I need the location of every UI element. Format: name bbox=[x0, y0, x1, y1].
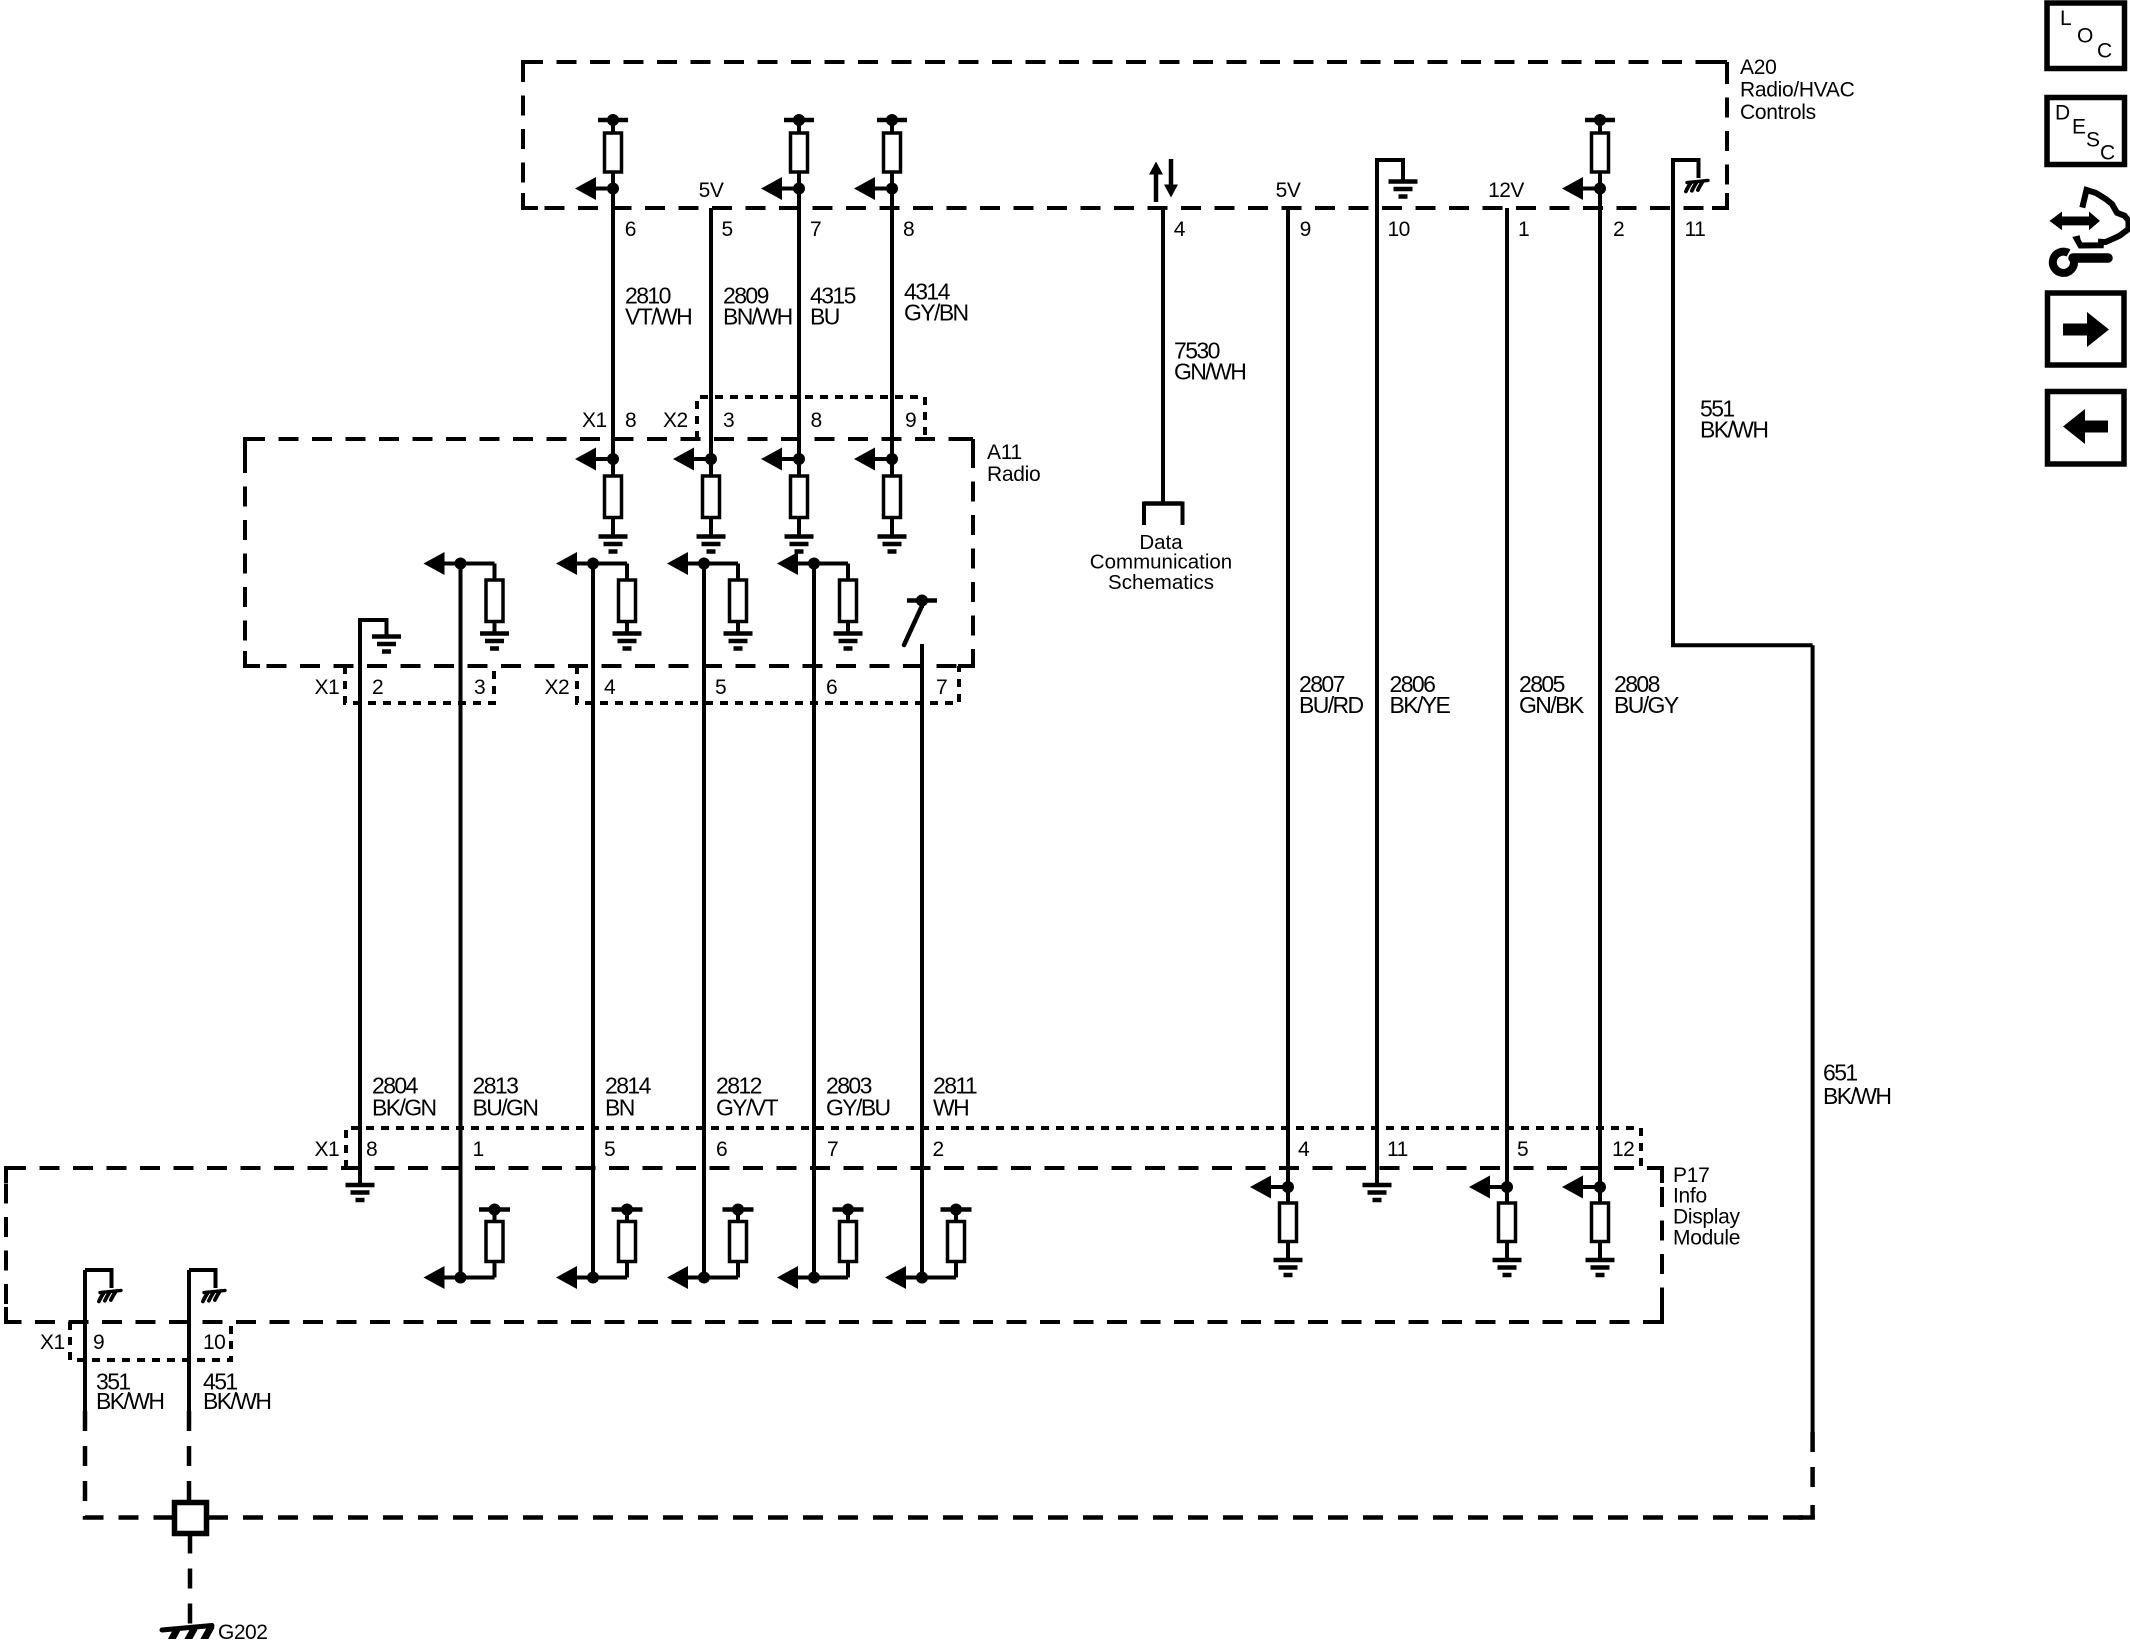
component box A20 Radio/HVAC Controls (dashed outline) bbox=[523, 62, 1727, 208]
svg-text:8: 8 bbox=[903, 218, 914, 241]
wire label 2810 VT/WH bbox=[625, 282, 691, 329]
svg-text:5: 5 bbox=[715, 676, 726, 699]
pin 12 (P17 top connector) bbox=[1612, 1138, 1634, 1161]
ground (P17 left, chassis symbol with elbow, pin 10) bbox=[189, 1270, 225, 1301]
svg-text:A11: A11 bbox=[987, 441, 1022, 464]
wire label 2805 GN/BK bbox=[1519, 671, 1585, 718]
svg-text:Display: Display bbox=[1673, 1206, 1741, 1229]
svg-text:7: 7 bbox=[810, 218, 821, 241]
svg-text:BU: BU bbox=[810, 303, 839, 329]
pin 2 (A11 bottom) bbox=[372, 676, 383, 699]
svg-text:E: E bbox=[2072, 116, 2086, 139]
wire 351 BK/WH (dashed segment to splice) bbox=[85, 1411, 172, 1518]
svg-text:5: 5 bbox=[604, 1138, 615, 1161]
svg-text:X1: X1 bbox=[40, 1331, 65, 1354]
label A11 Radio bbox=[987, 441, 1040, 486]
resistor to ground (A11 output, pin X2-5) bbox=[667, 552, 753, 649]
wire label 451 BK/WH bbox=[203, 1368, 270, 1414]
connector label X2 (A11 top) bbox=[663, 409, 688, 432]
component box P17 Info Display Module (dashed outline) bbox=[6, 1168, 1662, 1322]
wire label 2813 BU/GN bbox=[473, 1072, 538, 1120]
resistor to ground (A11 output, pin X2-6) bbox=[777, 552, 863, 649]
wire label 4314 GY/BN bbox=[904, 278, 968, 325]
resistor (A20 internal pull-up, pin 8) bbox=[854, 114, 907, 209]
svg-text:S: S bbox=[2086, 129, 2100, 152]
svg-text:Radio/HVAC: Radio/HVAC bbox=[1740, 79, 1855, 102]
wire 2813 BU/GN (A11:X1-3 to P17:1) bbox=[459, 564, 463, 1278]
wire 351 BK/WH (P17:9 solid segment) bbox=[83, 1270, 87, 1411]
svg-text:BK/GN: BK/GN bbox=[372, 1094, 436, 1120]
connector X2 (A11 top, dotted box) bbox=[697, 397, 925, 439]
svg-text:4: 4 bbox=[1298, 1138, 1310, 1161]
svg-text:4: 4 bbox=[1174, 218, 1186, 241]
wire label 2807 BU/RD bbox=[1299, 671, 1364, 718]
svg-text:11: 11 bbox=[1387, 1138, 1408, 1161]
wire 2810 VT/WH (A20:6 to A11:X1-8) bbox=[611, 189, 615, 460]
resistor to ground (P17 pin 5) bbox=[1469, 1176, 1522, 1276]
off-page connector to data communication bus (bracket) bbox=[1144, 502, 1183, 526]
pin 4 (A11 bottom) bbox=[604, 676, 616, 699]
label A20 Radio/HVAC Controls bbox=[1740, 56, 1855, 124]
pin 10 (A20) bbox=[1388, 218, 1410, 241]
svg-text:GN/BK: GN/BK bbox=[1519, 692, 1585, 718]
svg-text:1: 1 bbox=[1518, 218, 1529, 241]
resistor with off-page arrow (P17 pin 2) bbox=[885, 1204, 972, 1290]
svg-text:BU/GN: BU/GN bbox=[473, 1094, 538, 1120]
icon next-page (right arrow box) bbox=[2048, 293, 2125, 365]
resistor to ground (A11 output, pin X1-3) bbox=[424, 552, 510, 649]
wire (dashed segment splice to G202) bbox=[188, 1534, 193, 1627]
resistor to ground (A11 input, pin X1-8) bbox=[575, 448, 628, 552]
wire 2807 BU/RD (A20:9 to P17:4) bbox=[1286, 208, 1290, 1187]
wire label 2803 GY/BU bbox=[826, 1072, 890, 1120]
icon DESC (hyperlink box) bbox=[2047, 98, 2125, 165]
svg-text:9: 9 bbox=[1300, 218, 1311, 241]
svg-text:Radio: Radio bbox=[987, 463, 1040, 486]
ground G202 (chassis symbol) bbox=[162, 1626, 212, 1644]
pin 10 (P17 bottom) bbox=[203, 1331, 225, 1354]
svg-text:BN: BN bbox=[605, 1094, 634, 1120]
svg-text:C: C bbox=[2100, 142, 2115, 165]
pin 8 (A20) bbox=[903, 218, 914, 241]
pin 7 (P17 top connector) bbox=[827, 1138, 838, 1161]
icon previous-page (left arrow box) bbox=[2048, 392, 2125, 465]
svg-text:7: 7 bbox=[827, 1138, 838, 1161]
connector X1 (P17 top, dotted box) bbox=[346, 1128, 1641, 1168]
wire label 351 BK/WH bbox=[96, 1368, 163, 1414]
connector label X1 (P17 top) bbox=[315, 1138, 340, 1161]
wire label 551 BK/WH bbox=[1700, 395, 1767, 442]
wire label 2812 GY/VT bbox=[716, 1072, 779, 1120]
label G202 bbox=[218, 1621, 267, 1644]
svg-text:7: 7 bbox=[936, 676, 947, 699]
wire 451 BK/WH (P17:10 solid segment) bbox=[187, 1270, 191, 1411]
resistor to ground (A11 output, pin X2-4) bbox=[556, 552, 642, 649]
wire 551 BK/WH (A20:11 down and right) bbox=[1673, 208, 1813, 645]
pin 6 (A20) bbox=[625, 218, 636, 241]
wire label 2811 WH bbox=[933, 1072, 977, 1120]
wire label 651 BK/WH bbox=[1823, 1059, 1890, 1109]
svg-text:BK/YE: BK/YE bbox=[1390, 692, 1451, 718]
bidirectional serial-data arrows (A20 pin 4) bbox=[1149, 159, 1178, 202]
svg-text:BU/RD: BU/RD bbox=[1299, 692, 1364, 718]
ground (A11 pin X1-2, earth symbol with elbow) bbox=[360, 620, 401, 666]
pin 7 (A20) bbox=[810, 218, 821, 241]
svg-text:X2: X2 bbox=[663, 409, 688, 432]
wire label 2808 BU/GY bbox=[1614, 671, 1679, 718]
resistor (A20 internal pull-up, pin 6) bbox=[575, 114, 628, 209]
resistor with off-page arrow (P17 pin 7) bbox=[777, 1204, 864, 1290]
wire (dashed bus to 651 BK/WH) bbox=[208, 1515, 1813, 1520]
net label 5V (A20 pin 9) bbox=[1276, 179, 1301, 202]
resistor to ground (A11 input, pin X2-8) bbox=[761, 448, 814, 552]
wire 7530 GN/WH (A20:4 to data bus) bbox=[1161, 208, 1165, 503]
svg-text:10: 10 bbox=[1388, 218, 1410, 241]
svg-text:G202: G202 bbox=[218, 1621, 267, 1639]
pin 11 (A20) bbox=[1685, 218, 1706, 241]
wire 2812 GY/VT (A11:X2-5 to P17:6) bbox=[702, 564, 706, 1278]
pin 8 (A11 X1 top) bbox=[625, 409, 636, 432]
svg-text:GN/WH: GN/WH bbox=[1174, 358, 1245, 384]
svg-text:X1: X1 bbox=[315, 1138, 340, 1161]
svg-text:9: 9 bbox=[905, 409, 916, 432]
svg-text:X2: X2 bbox=[545, 676, 570, 699]
svg-text:GY/BU: GY/BU bbox=[826, 1094, 890, 1120]
svg-text:2: 2 bbox=[933, 1138, 944, 1161]
svg-text:Module: Module bbox=[1673, 1227, 1740, 1250]
svg-text:1: 1 bbox=[473, 1138, 484, 1161]
svg-text:5V: 5V bbox=[1276, 179, 1301, 202]
ground (A20 pin 10, earth symbol with elbow) bbox=[1377, 160, 1418, 209]
resistor to ground (P17 pin 4) bbox=[1250, 1176, 1303, 1276]
wire 451 BK/WH (dashed segment to splice) bbox=[187, 1411, 192, 1504]
svg-text:4: 4 bbox=[604, 676, 616, 699]
svg-text:2: 2 bbox=[372, 676, 383, 699]
svg-text:BK/WH: BK/WH bbox=[1700, 416, 1767, 442]
ground (P17 pin 8 input, earth symbol) bbox=[346, 1169, 375, 1200]
ground (P17 pin 11, earth symbol) bbox=[1363, 1169, 1392, 1200]
connector label X2 (A11 bottom) bbox=[545, 676, 570, 699]
svg-text:5V: 5V bbox=[699, 179, 724, 202]
connector label X1 (A11 top) bbox=[582, 409, 607, 432]
svg-text:BK/WH: BK/WH bbox=[203, 1388, 270, 1414]
svg-text:L: L bbox=[2060, 7, 2071, 30]
pin 7 (A11 bottom) bbox=[936, 676, 947, 699]
svg-text:X1: X1 bbox=[315, 676, 340, 699]
wire 651 BK/WH (solid vertical segment) bbox=[1811, 645, 1815, 1432]
resistor to ground (A11 input, pin X2-9) bbox=[854, 448, 907, 552]
pin 2 (P17 top connector) bbox=[933, 1138, 944, 1161]
wire 2808 BU/GY (A20:2 to P17:12) bbox=[1598, 189, 1602, 1188]
resistor (A20 internal pull-up, pin 2) bbox=[1562, 114, 1615, 209]
svg-text:8: 8 bbox=[366, 1138, 377, 1161]
svg-text:11: 11 bbox=[1685, 218, 1706, 241]
svg-text:Info: Info bbox=[1673, 1185, 1707, 1208]
wire 2814 BN (A11:X2-4 to P17:5) bbox=[591, 564, 595, 1278]
connector X1 (A11 bottom, dotted box) bbox=[345, 666, 494, 703]
connector label X1 (P17 bottom) bbox=[40, 1331, 65, 1354]
svg-text:12V: 12V bbox=[1488, 179, 1524, 202]
ground (P17 left, chassis symbol with elbow, pin 9) bbox=[85, 1270, 121, 1301]
pin 11 (P17 top connector) bbox=[1387, 1138, 1408, 1161]
pin 5 (P17 top connector) bbox=[604, 1138, 615, 1161]
ground (A20 pin 11, chassis symbol with elbow) bbox=[1673, 160, 1708, 209]
net label 12V (A20 pin 1) bbox=[1488, 179, 1524, 202]
wire 2811 WH (A11:X2-7 to P17:2) bbox=[920, 644, 924, 1278]
pin 9 (A20) bbox=[1300, 218, 1311, 241]
resistor to ground (P17 pin 12) bbox=[1562, 1176, 1615, 1276]
svg-text:6: 6 bbox=[625, 218, 636, 241]
svg-text:BU/GY: BU/GY bbox=[1614, 692, 1679, 718]
svg-text:BK/WH: BK/WH bbox=[96, 1388, 163, 1414]
wire 2806 BK/YE (A20:10 to P17:11) bbox=[1375, 208, 1379, 1169]
svg-text:GY/VT: GY/VT bbox=[716, 1094, 779, 1120]
svg-text:WH: WH bbox=[933, 1094, 968, 1120]
svg-text:A20: A20 bbox=[1740, 56, 1776, 79]
resistor with off-page arrow (P17 pin 1) bbox=[424, 1204, 511, 1290]
svg-text:Controls: Controls bbox=[1740, 101, 1816, 124]
svg-text:GY/BN: GY/BN bbox=[904, 299, 968, 325]
switch (A11 internal, pin X2-7) bbox=[904, 595, 937, 646]
wire 2803 GY/BU (A11:X2-6 to P17:7) bbox=[812, 564, 816, 1278]
pin 5 (P17 top connector) bbox=[1517, 1138, 1528, 1161]
svg-text:D: D bbox=[2055, 102, 2070, 125]
pin 6 (A11 bottom) bbox=[826, 676, 837, 699]
pin 2 (A20) bbox=[1613, 218, 1624, 241]
wire 651 BK/WH (dashed segment to splice) bbox=[1799, 1432, 1815, 1520]
svg-text:O: O bbox=[2077, 25, 2093, 48]
pin 3 (A11 X2 top) bbox=[723, 409, 734, 432]
svg-text:BK/WH: BK/WH bbox=[1823, 1083, 1890, 1109]
net label 5V (A20 pin 5) bbox=[699, 179, 724, 202]
wire 2805 GN/BK (A20:1 to P17:5) bbox=[1505, 208, 1509, 1187]
svg-text:9: 9 bbox=[93, 1331, 104, 1354]
svg-text:Schematics: Schematics bbox=[1108, 571, 1214, 594]
svg-text:VT/WH: VT/WH bbox=[625, 303, 691, 329]
wire label 4315 BU bbox=[810, 282, 856, 329]
pin 8 (P17 top connector) bbox=[366, 1138, 377, 1161]
svg-text:5: 5 bbox=[722, 218, 733, 241]
icon vehicle-repair (double arrow, car outline, wrench) bbox=[2050, 190, 2129, 273]
svg-text:C: C bbox=[2097, 40, 2112, 63]
wire label 2804 BK/GN bbox=[372, 1072, 436, 1120]
component box A11 Radio (dashed outline) bbox=[245, 439, 973, 666]
pin 5 (A11 bottom) bbox=[715, 676, 726, 699]
wire label 7530 GN/WH bbox=[1174, 337, 1245, 384]
annotation Data Communication Schematics bbox=[1090, 531, 1232, 594]
resistor to ground (A11 input, pin X2-3) bbox=[673, 448, 726, 552]
connector X2 (A11 bottom, dotted box) bbox=[577, 666, 959, 703]
svg-text:6: 6 bbox=[716, 1138, 727, 1161]
wire label 2814 BN bbox=[605, 1072, 652, 1120]
pin 3 (A11 bottom) bbox=[474, 676, 485, 699]
connector X1 (P17 bottom, dotted box pins 9-10) bbox=[70, 1322, 231, 1360]
wire 4315 BU (A20:7 to A11:X2-8) bbox=[797, 189, 801, 460]
pin 9 (A11 X2 top) bbox=[905, 409, 916, 432]
pin 8 (A11 X2 top) bbox=[811, 409, 822, 432]
pin 5 (A20) bbox=[722, 218, 733, 241]
svg-text:3: 3 bbox=[474, 676, 485, 699]
svg-text:8: 8 bbox=[625, 409, 636, 432]
wire label 2806 BK/YE bbox=[1390, 671, 1451, 718]
svg-text:3: 3 bbox=[723, 409, 734, 432]
svg-text:6: 6 bbox=[826, 676, 837, 699]
resistor with off-page arrow (P17 pin 5) bbox=[556, 1204, 643, 1290]
connector label X1 (A11 bottom) bbox=[315, 676, 340, 699]
pin 6 (P17 top connector) bbox=[716, 1138, 727, 1161]
resistor with off-page arrow (P17 pin 6) bbox=[667, 1204, 754, 1290]
label P17 Info Display Module bbox=[1673, 1164, 1741, 1250]
svg-text:10: 10 bbox=[203, 1331, 225, 1354]
pin 4 (P17 top connector) bbox=[1298, 1138, 1310, 1161]
resistor (A20 internal pull-up, pin 7) bbox=[761, 114, 814, 209]
icon LOC (hyperlink box) bbox=[2047, 3, 2125, 69]
splice S-box (G202 junction) bbox=[175, 1503, 207, 1534]
pin 9 (P17 bottom) bbox=[93, 1331, 104, 1354]
pin 1 (P17 top connector) bbox=[473, 1138, 484, 1161]
svg-text:2: 2 bbox=[1613, 218, 1624, 241]
wire 4314 GY/BN (A20:8 to A11:X2-9) bbox=[890, 189, 894, 460]
wire 2804 BK/GN (A11:X1-2 to P17:8) bbox=[358, 620, 362, 1169]
wire label 2809 BN/WH bbox=[723, 282, 792, 329]
pin 4 (A20) bbox=[1174, 218, 1186, 241]
svg-text:5: 5 bbox=[1517, 1138, 1528, 1161]
pin 1 (A20) bbox=[1518, 218, 1529, 241]
svg-text:BN/WH: BN/WH bbox=[723, 303, 792, 329]
wire 2809 BN/WH (A20:5 to A11:X2-3) bbox=[709, 208, 713, 459]
svg-text:X1: X1 bbox=[582, 409, 607, 432]
svg-text:8: 8 bbox=[811, 409, 822, 432]
svg-text:651: 651 bbox=[1823, 1059, 1857, 1085]
svg-text:12: 12 bbox=[1612, 1138, 1634, 1161]
